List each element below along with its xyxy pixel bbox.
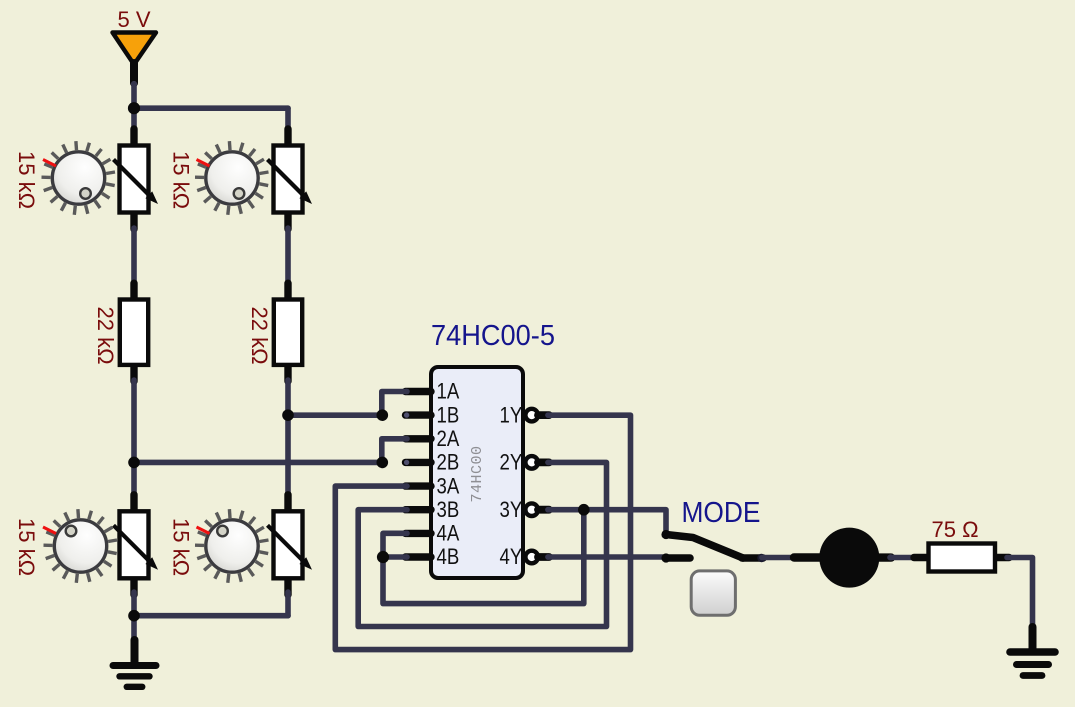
svg-text:3B: 3B bbox=[437, 497, 460, 522]
svg-text:1B: 1B bbox=[437, 402, 460, 427]
wire R1 to R3 bbox=[131, 228, 137, 285]
potentiometer R5 15k bbox=[43, 495, 158, 595]
wire R2 to R4 bbox=[285, 228, 291, 285]
wire 1Y to 3A feedback loop bbox=[335, 415, 630, 649]
resistor R4 22k bbox=[274, 283, 302, 381]
svg-text:3Y: 3Y bbox=[500, 497, 523, 522]
wire 5V to junction J1 bbox=[131, 84, 137, 108]
switch S1 SPDT bbox=[661, 530, 765, 615]
ground GND1 bbox=[113, 640, 156, 687]
svg-text:4B: 4B bbox=[437, 544, 460, 569]
resistor R3 22k bbox=[120, 283, 148, 381]
svg-text:15 kΩ: 15 kΩ bbox=[169, 518, 194, 576]
node wire cap bbox=[1030, 625, 1036, 631]
ground GND2 bbox=[1010, 627, 1055, 676]
svg-text:4Y: 4Y bbox=[500, 544, 523, 569]
svg-text:15 kΩ: 15 kΩ bbox=[14, 151, 39, 209]
svg-text:2B: 2B bbox=[437, 450, 460, 475]
node 2B junction bbox=[377, 457, 389, 469]
svg-text:1A: 1A bbox=[437, 379, 460, 404]
wire J3 to 1B bbox=[288, 412, 382, 418]
svg-text:2Y: 2Y bbox=[500, 450, 523, 475]
wire R2 column down bbox=[285, 108, 291, 130]
wire J2 to 2B bbox=[134, 460, 382, 466]
wire 1A to 1B bbox=[382, 392, 407, 416]
power +5V symbol bbox=[113, 33, 157, 88]
node 4B junction bbox=[377, 551, 389, 563]
wire J1 to R2 column (top horizontal) bbox=[134, 105, 288, 111]
wire speaker to R7 bbox=[890, 555, 917, 561]
svg-text:4A: 4A bbox=[437, 521, 460, 546]
node J4 junction bbox=[128, 610, 140, 622]
wire 2A to 2B bbox=[382, 439, 407, 463]
wire 4Y to switch throw bbox=[548, 554, 664, 560]
node J2 junction (R3-2B) bbox=[128, 457, 140, 469]
wire 4A to 4B bbox=[383, 533, 407, 557]
wire J1 down to R1 bbox=[131, 108, 137, 130]
potentiometer R1 15k bbox=[42, 129, 159, 229]
svg-text:5 V: 5 V bbox=[117, 7, 150, 32]
svg-text:1Y: 1Y bbox=[500, 402, 523, 427]
wire R6 to J4 bbox=[134, 613, 288, 619]
wire 3Y to switch bbox=[548, 510, 666, 531]
wire switch to speaker bbox=[762, 555, 798, 561]
wire 2Y to 3B feedback loop bbox=[358, 462, 606, 626]
wire J4 to ground bbox=[131, 616, 137, 641]
wire R5 to J4 bbox=[131, 592, 137, 616]
svg-text:22 kΩ: 22 kΩ bbox=[247, 306, 272, 364]
potentiometer R2 15k bbox=[195, 129, 312, 229]
svg-text:MODE: MODE bbox=[682, 497, 761, 529]
svg-text:74HC00-5: 74HC00-5 bbox=[431, 320, 555, 352]
wire R6 down bbox=[285, 592, 291, 616]
wire R4 to J3/R6 bbox=[285, 380, 291, 498]
op-amp U1 74HC00 body and pins bbox=[404, 367, 551, 578]
node J3 junction (R4-1B) bbox=[282, 409, 294, 421]
speaker LS1 bbox=[794, 528, 894, 588]
node 1B junction bbox=[377, 409, 389, 421]
wire 3Y to 4B feedback bbox=[383, 510, 584, 604]
svg-text:15 kΩ: 15 kΩ bbox=[169, 151, 194, 209]
svg-text:2A: 2A bbox=[437, 426, 460, 451]
resistor R7 75ohm bbox=[914, 544, 1009, 572]
svg-text:3A: 3A bbox=[437, 473, 460, 498]
potentiometer R6 15k bbox=[195, 495, 312, 595]
svg-text:15 kΩ: 15 kΩ bbox=[14, 518, 39, 576]
svg-text:22 kΩ: 22 kΩ bbox=[93, 306, 118, 364]
wire R3 to J2/R5 bbox=[131, 380, 137, 498]
wire R7 to ground bbox=[1007, 558, 1033, 629]
svg-text:74HC00: 74HC00 bbox=[469, 445, 486, 502]
wire 4B stub link bbox=[383, 554, 407, 560]
node J1 junction bbox=[128, 102, 140, 114]
svg-text:75 Ω: 75 Ω bbox=[931, 517, 978, 542]
node 3Y junction bbox=[578, 504, 590, 516]
